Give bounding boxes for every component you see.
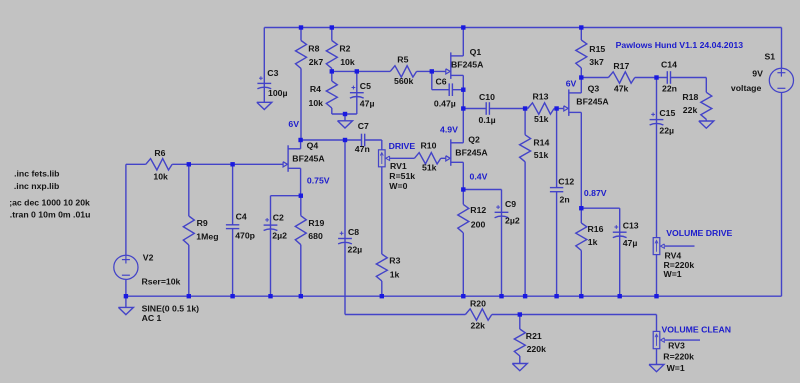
svg-text:51k: 51k: [534, 114, 549, 124]
svg-text:C15: C15: [659, 108, 675, 118]
svg-text:C13: C13: [623, 221, 639, 231]
svg-text:C14: C14: [661, 60, 677, 70]
svg-text:R9: R9: [197, 218, 208, 228]
svg-text:22µ: 22µ: [659, 126, 674, 136]
svg-text:C12: C12: [558, 177, 574, 187]
svg-text:47µ: 47µ: [623, 238, 638, 248]
svg-text:Pawlows Hund V1.1 24.04.2013: Pawlows Hund V1.1 24.04.2013: [616, 40, 744, 50]
svg-text:R19: R19: [308, 218, 324, 228]
svg-text:C5: C5: [360, 81, 371, 91]
svg-text:0.75V: 0.75V: [307, 175, 330, 185]
svg-text:BF245A: BF245A: [292, 154, 325, 164]
svg-text:R8: R8: [308, 44, 319, 54]
svg-text:C7: C7: [358, 121, 369, 131]
svg-text:RV1: RV1: [390, 161, 407, 171]
svg-text:9V: 9V: [752, 69, 763, 79]
svg-text:R5: R5: [397, 55, 408, 65]
svg-text:VOLUME CLEAN: VOLUME CLEAN: [662, 325, 732, 335]
svg-text:22k: 22k: [471, 321, 486, 331]
svg-text:V2: V2: [143, 253, 154, 263]
svg-text:R16: R16: [588, 224, 604, 234]
svg-text:C3: C3: [267, 68, 278, 78]
svg-text:680: 680: [308, 231, 323, 241]
svg-text:R13: R13: [533, 92, 549, 102]
svg-text:47n: 47n: [355, 144, 370, 154]
svg-text:C4: C4: [236, 212, 247, 222]
svg-text:;ac dec 1000 10 20k: ;ac dec 1000 10 20k: [9, 198, 90, 208]
svg-text:0.1µ: 0.1µ: [479, 115, 496, 125]
svg-text:10k: 10k: [153, 171, 168, 181]
svg-text:6V: 6V: [288, 119, 299, 129]
svg-text:220k: 220k: [527, 344, 546, 354]
svg-text:10k: 10k: [309, 98, 324, 108]
svg-text:22k: 22k: [683, 105, 698, 115]
svg-text:W=1: W=1: [667, 363, 685, 373]
svg-text:RV3: RV3: [668, 341, 685, 351]
svg-text:BF245A: BF245A: [455, 147, 488, 157]
svg-text:2µ2: 2µ2: [505, 215, 520, 225]
svg-text:560k: 560k: [394, 76, 413, 86]
svg-text:S1: S1: [765, 51, 776, 61]
svg-text:.inc nxp.lib: .inc nxp.lib: [14, 181, 59, 191]
svg-text:470p: 470p: [235, 231, 255, 241]
svg-text:R2: R2: [339, 44, 350, 54]
svg-text:C2: C2: [273, 212, 284, 222]
svg-text:100µ: 100µ: [268, 88, 288, 98]
svg-text:R15: R15: [589, 44, 605, 54]
svg-text:6V: 6V: [566, 78, 577, 88]
svg-text:R18: R18: [682, 92, 698, 102]
svg-text:Rser=10k: Rser=10k: [142, 276, 181, 286]
svg-text:Q4: Q4: [307, 141, 319, 151]
svg-text:.tran 0 10m 0m .01u: .tran 0 10m 0m .01u: [10, 210, 91, 220]
svg-text:0.87V: 0.87V: [584, 188, 607, 198]
svg-text:BF245A: BF245A: [576, 96, 609, 106]
svg-text:W=0: W=0: [389, 181, 407, 191]
svg-text:R4: R4: [310, 84, 321, 94]
svg-text:2k7: 2k7: [309, 57, 324, 67]
svg-text:3k7: 3k7: [589, 57, 604, 67]
svg-text:R17: R17: [613, 61, 629, 71]
svg-text:R12: R12: [470, 205, 486, 215]
svg-text:1Meg: 1Meg: [196, 231, 218, 241]
svg-text:DRIVE: DRIVE: [389, 141, 416, 151]
svg-text:R=220k: R=220k: [663, 352, 694, 362]
svg-text:W=1: W=1: [664, 269, 682, 279]
svg-text:200: 200: [471, 219, 486, 229]
svg-text:R20: R20: [470, 299, 486, 309]
svg-text:51k: 51k: [534, 150, 549, 160]
svg-text:Q2: Q2: [468, 135, 480, 145]
svg-text:0.4V: 0.4V: [470, 172, 488, 182]
svg-text:R6: R6: [154, 148, 165, 158]
svg-text:1k: 1k: [588, 237, 598, 247]
svg-text:C10: C10: [479, 92, 495, 102]
svg-text:C8: C8: [348, 227, 359, 237]
svg-text:AC 1: AC 1: [142, 313, 162, 323]
svg-text:C6: C6: [436, 76, 447, 86]
svg-text:22n: 22n: [662, 83, 677, 93]
svg-text:0.47µ: 0.47µ: [434, 98, 456, 108]
svg-text:C9: C9: [505, 199, 516, 209]
svg-text:voltage: voltage: [731, 83, 762, 93]
svg-text:R10: R10: [421, 141, 437, 151]
svg-text:Q3: Q3: [588, 84, 600, 94]
svg-text:10k: 10k: [340, 57, 355, 67]
svg-text:47µ: 47µ: [360, 99, 375, 109]
svg-text:47k: 47k: [614, 83, 629, 93]
svg-text:4.9V: 4.9V: [440, 125, 458, 135]
svg-text:Q1: Q1: [470, 47, 482, 57]
svg-text:R3: R3: [389, 256, 400, 266]
svg-text:R21: R21: [526, 331, 542, 341]
svg-text:VOLUME DRIVE: VOLUME DRIVE: [666, 228, 732, 238]
svg-text:R=51k: R=51k: [389, 171, 415, 181]
svg-text:RV4: RV4: [665, 251, 682, 261]
svg-text:51k: 51k: [422, 162, 437, 172]
svg-text:BF245A: BF245A: [451, 59, 484, 69]
svg-text:R14: R14: [533, 137, 549, 147]
svg-text:1k: 1k: [390, 269, 400, 279]
svg-text:2µ2: 2µ2: [272, 230, 287, 240]
svg-text:22µ: 22µ: [348, 244, 363, 254]
svg-text:.inc fets.lib: .inc fets.lib: [14, 169, 59, 179]
svg-text:2n: 2n: [560, 195, 570, 205]
